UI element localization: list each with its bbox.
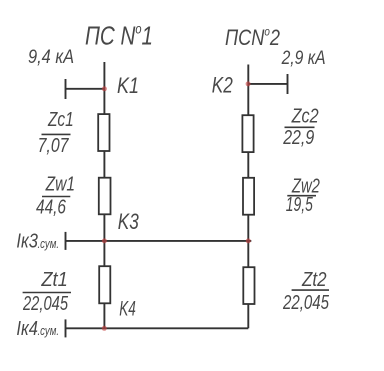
svg-text:K1: K1 [117,73,139,98]
fraction bar Zt2/22,045 [292,289,329,291]
fraction bar Zc2/22,9 [285,126,315,128]
wire K2 stub horizontal [248,83,287,85]
svg-text:22,045: 22,045 [282,291,329,314]
wire left branch vertical [103,62,105,329]
svg-text:.сум.: .сум. [38,323,60,338]
svg-text:.сум.: .сум. [38,236,60,251]
node K4 left junction [102,326,107,331]
svg-text:Zt1: Zt1 [41,268,68,291]
wire K3 bus horizontal [66,240,252,242]
resistor Zc2 [242,115,253,152]
node K2 [246,81,251,86]
wire right branch vertical [247,65,249,329]
svg-text:Zw1: Zw1 [45,173,75,196]
wire K3 bus end tick [65,232,67,250]
resistor Zt1 [99,266,110,303]
svg-text:K3: K3 [118,209,140,234]
wire K1 stub end tick [65,79,67,99]
svg-text:Zt2: Zt2 [301,268,327,291]
svg-text:19,5: 19,5 [286,193,313,216]
svg-text:22,045: 22,045 [22,292,68,315]
fraction bar Zw1/44,6 [42,196,70,198]
fraction bar Zw2/19,5 [287,195,316,197]
wire K2 stub end tick [287,74,289,94]
svg-text:ПС No1: ПС No1 [85,20,153,50]
svg-text:K4: K4 [119,297,136,320]
resistor Zw2 [243,178,254,215]
node K3 right junction [246,238,251,243]
svg-text:ПСNo2: ПСNo2 [225,25,280,51]
svg-text:44,6: 44,6 [36,196,66,219]
svg-text:Zc2: Zc2 [291,105,319,128]
resistor Zw1 [99,178,111,215]
svg-text:7,07: 7,07 [38,134,70,157]
svg-text:K2: K2 [212,72,233,97]
node K3 left junction [102,238,107,243]
svg-text:Iк4: Iк4 [16,318,38,340]
svg-text:9,4 кА: 9,4 кА [28,46,74,68]
wire K4 bus end tick [65,319,67,337]
node K1 [102,86,107,91]
fraction bar Zc1/7,07 [42,133,71,135]
svg-text:Zc1: Zc1 [47,108,73,131]
fraction bar Zt1/22,045 [23,292,71,294]
svg-text:2,9 кА: 2,9 кА [281,47,326,69]
resistor Zc1 [98,114,109,151]
wire K4 bus horizontal [66,327,249,329]
resistor Zt2 [243,267,254,304]
wire K1 stub horizontal [66,88,105,90]
svg-text:Iк3: Iк3 [16,231,38,253]
svg-text:22,9: 22,9 [282,126,314,149]
